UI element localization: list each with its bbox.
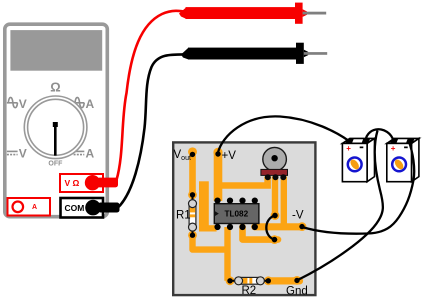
- svg-text:Gnd: Gnd: [286, 286, 308, 298]
- svg-text:+: +: [346, 144, 351, 153]
- svg-text:R1: R1: [176, 210, 191, 222]
- svg-text:A: A: [86, 147, 95, 161]
- svg-text:TL082: TL082: [225, 210, 249, 219]
- svg-text:+V: +V: [222, 150, 237, 162]
- svg-text:R2: R2: [242, 285, 257, 297]
- svg-text:V Ω: V Ω: [65, 178, 80, 188]
- svg-text:V: V: [19, 97, 27, 111]
- svg-text:OFF: OFF: [48, 160, 63, 167]
- svg-text:V: V: [19, 147, 27, 161]
- svg-text:+: +: [391, 144, 396, 153]
- svg-text:A: A: [32, 204, 37, 211]
- svg-text:A: A: [86, 97, 95, 111]
- svg-text:Ω: Ω: [50, 80, 60, 95]
- svg-text:COM: COM: [65, 203, 85, 213]
- svg-text:-V: -V: [292, 210, 304, 222]
